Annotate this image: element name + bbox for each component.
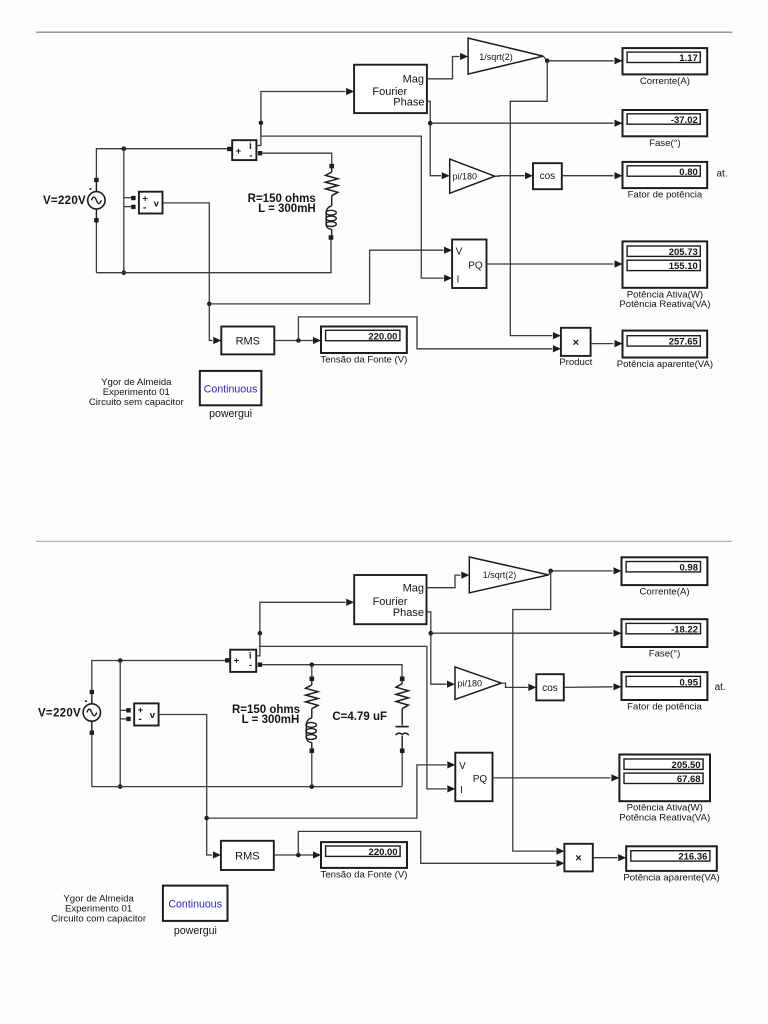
svg-text:Phase: Phase (393, 96, 424, 108)
svg-text:L = 300mH: L = 300mH (258, 203, 316, 215)
junction at RL branch top (310, 662, 315, 667)
svg-text:L = 300mH: L = 300mH (242, 714, 300, 726)
svg-text:216.36: 216.36 (678, 852, 707, 863)
svg-text:Potência aparente(VA): Potência aparente(VA) (623, 872, 719, 883)
junction on Phase output page 2 (429, 631, 434, 636)
display Fase = -18.22 (622, 619, 708, 647)
svg-text:v: v (154, 199, 160, 210)
svg-text:-: - (249, 151, 252, 162)
resistor R1 (150 ohms) (326, 172, 338, 196)
capacitor C1 plate bottom (396, 733, 409, 735)
wire PQ output to power displays page 2 (493, 777, 611, 779)
wire Phase output down to gain G4 (427, 612, 447, 684)
display Potencia aparente = 216.36 (626, 846, 717, 871)
port U2 - (258, 151, 262, 155)
display Corrente(A) = 0.98 (622, 557, 708, 585)
port U7 - (258, 663, 262, 667)
svg-text:×: × (573, 337, 579, 349)
separator line page 1 (36, 31, 733, 33)
svg-text:220.00: 220.00 (368, 331, 397, 342)
wire Mag output to gain G3 (427, 575, 461, 588)
display Tensao da Fonte = 220.00 (321, 327, 407, 354)
wire Product output to aparente display (591, 343, 614, 345)
junction on i signal page 2 (258, 631, 263, 636)
wire stub to U6 + input (120, 709, 127, 711)
wire RMS output to Tensao display page 2 (274, 854, 313, 856)
PQ measurement block U9 (455, 753, 492, 802)
svg-text:0.98: 0.98 (680, 563, 699, 574)
wire G3 output down to Product page 2 (513, 571, 556, 851)
terminal of V1 (bottom) (94, 218, 98, 222)
svg-text:V=220V: V=220V (38, 708, 81, 720)
svg-text:PQ: PQ (468, 261, 483, 272)
wire U7 - to parallel branches (262, 665, 402, 677)
current measurement U7 (230, 650, 256, 672)
svg-text:-37.02: -37.02 (671, 115, 698, 126)
resistor of capacitor branch (396, 684, 408, 709)
trigonometric block cos (533, 163, 562, 189)
junction on v signal (207, 302, 212, 307)
current measurement U2 (232, 140, 256, 160)
svg-text:Circuito com capacitor: Circuito com capacitor (51, 914, 147, 925)
svg-text:RMS: RMS (235, 850, 259, 862)
wire into branch resistor (401, 681, 403, 684)
svg-text:v: v (150, 710, 156, 721)
wire R1 to L1 (331, 196, 333, 206)
gain G1 1/sqrt(2) (468, 38, 543, 74)
wire U1 output v signal down to RMS (163, 203, 213, 341)
display Potencia Ativa / Reativa page 2 (619, 755, 710, 802)
svg-text:Tensão da Fonte (V): Tensão da Fonte (V) (320, 355, 407, 366)
node D junction (118, 784, 123, 789)
inductor L1 (300mH) (326, 206, 332, 230)
svg-text:Fase(°): Fase(°) (649, 649, 681, 660)
svg-text:Circuito sem capacitor: Circuito sem capacitor (89, 397, 185, 408)
svg-text:67.68: 67.68 (677, 774, 701, 785)
wire i signal to PQ block I input (261, 123, 444, 278)
trigonometric block cos page 2 (536, 674, 564, 700)
RL branch terminal page 2 (bottom) (310, 748, 315, 753)
node C junction (118, 658, 123, 663)
wire Phase to Fase display (430, 122, 613, 124)
Fourier block U8 (354, 575, 426, 624)
svg-text:Fator de potência: Fator de potência (628, 190, 703, 201)
wire into resistor R2 (311, 681, 313, 685)
svg-text:+: + (236, 146, 242, 157)
svg-text:powergui: powergui (174, 925, 217, 937)
svg-text:205.73: 205.73 (669, 247, 698, 258)
resistor R2 (150 ohms) (306, 685, 318, 709)
junction on RMS output page 2 (296, 853, 301, 858)
svg-text:I: I (460, 785, 463, 796)
voltage source V2 (AC 220V) (83, 704, 100, 721)
junction on G3 output (548, 569, 553, 574)
wire V1 top to node A (96, 149, 227, 179)
wire U6 output v signal down to RMS (159, 715, 212, 856)
svg-text:-: - (249, 660, 252, 671)
svg-text:×: × (575, 852, 581, 864)
wire RL branch bottom to bus (330, 240, 332, 273)
svg-text:I: I (457, 274, 460, 285)
port U6 - (126, 717, 130, 721)
svg-text:0.95: 0.95 (680, 677, 699, 688)
wire U2 - to RL branch top (262, 153, 331, 164)
terminal of V2 (top) (90, 690, 94, 694)
inductor L2 (300mH) (306, 718, 312, 743)
display Tensao da Fonte page 2 = 220.00 (321, 842, 407, 868)
RL branch terminal (top) (329, 164, 334, 169)
svg-text:Continuous: Continuous (204, 383, 258, 395)
wire V2 top to node C (92, 661, 225, 692)
svg-text:1/sqrt(2): 1/sqrt(2) (479, 52, 513, 62)
junction on G1 output (545, 59, 550, 64)
svg-text:Product: Product (559, 357, 592, 368)
wire RL branch bottom to bus page 2 (311, 753, 313, 787)
wire out of capacitor C1 (401, 736, 403, 749)
wire cos to Fator display page 2 (564, 686, 613, 689)
svg-text:205.50: 205.50 (672, 760, 701, 771)
RL branch terminal page 2 (top) (310, 677, 315, 682)
node B junction (122, 270, 127, 275)
wire RMS output to Tensao display (274, 340, 313, 342)
svg-text:Mag: Mag (403, 583, 424, 595)
port U2 input (227, 147, 231, 151)
RMS block U10 (221, 841, 274, 870)
product block X2 (564, 844, 592, 872)
svg-text:220.00: 220.00 (369, 847, 398, 858)
wire G4 to cos block page 2 (501, 683, 528, 687)
wire Phase to Fase display page 2 (431, 632, 613, 634)
wire PQ output to power displays (487, 263, 614, 265)
wire RMS tap to Product input page 2 (298, 831, 556, 863)
wire R2 to L2 (311, 709, 313, 718)
svg-text:-: - (143, 202, 146, 213)
wire stub to U1 + input (124, 197, 132, 199)
svg-text:Potência Reativa(VA): Potência Reativa(VA) (619, 812, 710, 823)
capacitor branch terminal (bottom) (400, 749, 405, 754)
svg-text:155.10: 155.10 (669, 261, 698, 272)
port U1 + (131, 196, 135, 200)
svg-text:Phase: Phase (393, 607, 424, 619)
svg-text:-: - (138, 714, 141, 725)
svg-text:1.17: 1.17 (679, 53, 698, 64)
svg-text:+: + (234, 655, 240, 666)
wire stub to U6 - input (120, 718, 127, 720)
voltage measurement U6 (134, 703, 158, 725)
separator line page 2 (36, 540, 733, 542)
svg-text:at.: at. (715, 682, 726, 693)
terminal of V2 (bottom) (90, 731, 94, 735)
powergui block page 2 (163, 886, 228, 921)
wire U2 i output up to Fourier input (256, 92, 345, 146)
svg-text:V: V (459, 761, 466, 772)
junction on i signal (259, 121, 264, 126)
svg-text:0.80: 0.80 (679, 167, 698, 178)
svg-text:Tensão da Fonte (V): Tensão da Fonte (V) (321, 869, 408, 880)
voltage source V1 (AC 220V) (88, 192, 105, 209)
port U1 - (131, 205, 135, 209)
RL branch terminal (bottom) (329, 235, 334, 240)
wire RMS tap to Product input (298, 317, 552, 349)
junction on Phase output (428, 121, 433, 126)
svg-text:Mag: Mag (403, 74, 424, 86)
wire i signal to PQ I input page 2 (260, 633, 447, 789)
svg-text:powergui: powergui (209, 408, 252, 420)
svg-text:V=220V: V=220V (43, 195, 86, 207)
node A junction (122, 146, 127, 151)
wire v signal to PQ block V input (209, 250, 443, 304)
port U6 + (126, 708, 130, 712)
svg-text:V: V (456, 247, 463, 258)
svg-text:Potência aparente(VA): Potência aparente(VA) (617, 359, 713, 370)
junction on v signal page 2 (204, 816, 209, 821)
wire stub to U1 - input (124, 206, 132, 208)
capacitor branch terminal (top) (400, 677, 405, 682)
wire V2 bottom to node D (91, 735, 93, 787)
wire Product output to aparente display page 2 (593, 857, 618, 859)
svg-text:cos: cos (540, 171, 556, 182)
wire capacitor branch bottom to bus (401, 753, 403, 787)
wire U7 i output up to Fourier input page 2 (256, 602, 345, 656)
svg-text:Potência Reativa(VA): Potência Reativa(VA) (619, 299, 710, 310)
svg-text:Corrente(A): Corrente(A) (639, 587, 689, 598)
terminal of V1 (top) (94, 178, 98, 182)
capacitor C1 (4.79 uF) plate top (396, 726, 409, 728)
wire into resistor R1 (331, 168, 333, 172)
wire G1 output to Corrente display (543, 56, 613, 61)
product block X1 (561, 328, 591, 356)
wire bottom bus node D to C branch (92, 786, 402, 788)
svg-text:257.65: 257.65 (669, 337, 699, 348)
display Fator de potencia = 0.80 (623, 162, 708, 188)
gain G3 1/sqrt(2) (469, 557, 548, 593)
port U7 input (225, 658, 229, 662)
wire G1 output down to Product (510, 61, 552, 336)
svg-text:1/sqrt(2): 1/sqrt(2) (483, 570, 517, 580)
gain G4 pi/180 (455, 667, 501, 700)
junction bus at RL branch (310, 784, 315, 789)
display Potencia aparente = 257.65 (623, 331, 708, 358)
wire out of inductor L1 (331, 230, 333, 236)
svg-text:Continuous: Continuous (168, 898, 222, 910)
wire V1 bottom to node B (95, 223, 97, 273)
svg-text:Corrente(A): Corrente(A) (640, 76, 690, 87)
wire Phase output down to gain G2 (427, 101, 441, 175)
svg-text:at.: at. (717, 169, 728, 180)
svg-text:C=4.79 uF: C=4.79 uF (332, 711, 387, 723)
wire Mag output to gain G1 (427, 57, 460, 79)
svg-text:cos: cos (542, 683, 558, 694)
voltage measurement U1 (139, 192, 163, 214)
display Potencia Ativa / Reativa (623, 241, 708, 287)
svg-text:RMS: RMS (236, 336, 260, 348)
wire resistor to capacitor C1 (401, 709, 403, 726)
display Fator de potencia = 0.95 (622, 672, 708, 700)
wire G3 output to Corrente display page 2 (549, 571, 613, 575)
svg-text:pi/180: pi/180 (458, 678, 483, 688)
wire node A down to node B (123, 149, 125, 273)
wire G2 to cos block (495, 175, 525, 178)
wire node C down to node D (119, 661, 121, 787)
Fourier block U3 (354, 65, 427, 113)
powergui block page 1 (200, 371, 262, 405)
wire cos to Fator display (562, 175, 614, 177)
gain G2 pi/180 (450, 159, 495, 193)
RMS block U5 (221, 327, 274, 355)
wire bottom bus node B to RL branch (96, 272, 331, 274)
display Fase = -37.02 (623, 110, 708, 136)
display Corrente(A) = 1.17 (623, 48, 708, 74)
svg-text:-18.22: -18.22 (671, 624, 698, 635)
svg-text:Fator de potência: Fator de potência (627, 702, 702, 713)
wire out of inductor L2 (311, 743, 313, 748)
svg-text:pi/180: pi/180 (453, 171, 478, 181)
PQ measurement block U4 (452, 240, 486, 289)
svg-text:Fase(°): Fase(°) (649, 138, 681, 149)
svg-text:PQ: PQ (473, 774, 488, 785)
wire v signal to PQ V input page 2 (207, 765, 447, 818)
junction on RMS output (296, 338, 301, 343)
wire junction down to RL branch (311, 665, 313, 677)
